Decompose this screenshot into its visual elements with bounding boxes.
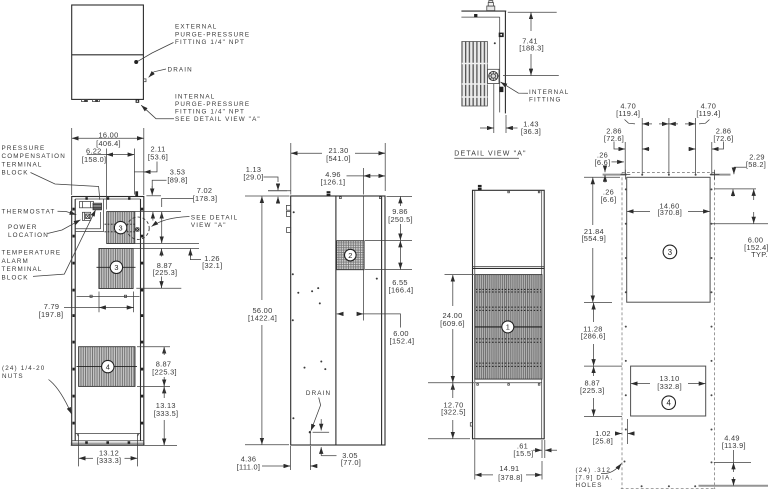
top view enclosure outline — [72, 5, 144, 99]
svg-text:(24) 1/4-20: (24) 1/4-20 — [2, 365, 45, 372]
circled 2 — [345, 249, 357, 261]
svg-text:TEMPERATURE: TEMPERATURE — [2, 250, 62, 257]
svg-text:[158.0]: [158.0] — [82, 155, 107, 164]
svg-text:(24) .312: (24) .312 — [576, 467, 612, 474]
dashed detail circle — [127, 217, 149, 239]
bottom base band — [71, 434, 145, 446]
dim 3.53 [89.8] — [146, 168, 187, 221]
dim 1.02 [25.8] — [593, 419, 635, 445]
upper grille (3) — [105, 212, 135, 244]
circled 4 — [102, 360, 114, 372]
dim 21.84 [554.9] — [581, 177, 620, 302]
dim 13.13 [333.5] — [145, 387, 179, 446]
external purge-pressure fitting (dot) — [134, 60, 138, 64]
svg-text:[333.5]: [333.5] — [154, 409, 179, 418]
svg-text:PURGE-PRESSURE: PURGE-PRESSURE — [175, 101, 250, 108]
dim 2.86 [72.6] left — [604, 126, 650, 149]
drain leader — [311, 398, 321, 431]
drain stub on right edge — [143, 79, 146, 82]
svg-text:[178.3]: [178.3] — [193, 194, 218, 203]
dim 11.28 [286.6] — [581, 303, 622, 366]
dim 1.13 [29.0] — [243, 165, 287, 204]
rear view body — [473, 190, 545, 438]
svg-text:TYP.: TYP. — [751, 250, 768, 259]
solid flange top segments — [603, 174, 731, 176]
svg-text:BLOCK: BLOCK — [2, 169, 29, 176]
heater shelf line — [77, 295, 140, 297]
top edge nuts — [85, 197, 130, 200]
svg-text:[225.3]: [225.3] — [153, 268, 178, 277]
svg-text:[113.9]: [113.9] — [722, 441, 746, 450]
rivet dots in side view — [292, 211, 378, 419]
svg-text:COMPENSATION: COMPENSATION — [2, 153, 66, 160]
label: external purge-pressure fitting — [175, 24, 250, 46]
svg-text:3: 3 — [114, 263, 118, 272]
svg-text:DRAIN: DRAIN — [168, 66, 193, 73]
svg-text:[7.9] DIA.: [7.9] DIA. — [576, 475, 614, 482]
svg-text:4: 4 — [666, 399, 671, 408]
svg-text:[322.5]: [322.5] — [441, 408, 466, 417]
label: (24) .312 [7.9] dia. holes — [576, 467, 614, 489]
corner cross marks — [621, 170, 720, 180]
svg-text:HOLES: HOLES — [576, 482, 603, 489]
dim 24.00 [609.6] — [440, 275, 474, 383]
left edge tabs — [286, 205, 290, 232]
label: internal fitting — [529, 89, 569, 104]
dim 7.79 [197.8] — [39, 292, 134, 319]
svg-text:[32.1]: [32.1] — [202, 261, 222, 270]
svg-text:[29.0]: [29.0] — [243, 172, 263, 181]
svg-text:3: 3 — [119, 223, 123, 232]
svg-text:[77.0]: [77.0] — [341, 458, 361, 467]
dim 4.96 [126.1] — [321, 168, 386, 195]
nut square on wall — [499, 33, 504, 38]
knurled fitting circle — [489, 71, 499, 80]
dim 6.22 [158.0] — [82, 147, 135, 210]
mounting holes bottom row — [641, 485, 697, 487]
circled 3 cutout — [663, 245, 677, 259]
dim 16.00 [406.4] — [72, 128, 144, 195]
thermostat — [82, 212, 90, 220]
hole row lines right — [712, 189, 768, 224]
svg-text:TERMINAL: TERMINAL — [2, 161, 43, 168]
circled 4 cutout — [662, 396, 676, 410]
left notch on rear view — [470, 423, 472, 426]
leader temperature alarm block — [33, 210, 96, 277]
dim 1.26 [32.1] — [190, 249, 222, 270]
cutout 4 rectangle — [631, 366, 706, 416]
base nuts — [85, 441, 130, 444]
dim 4.36 [111.0] — [237, 446, 317, 471]
svg-text:[197.8]: [197.8] — [39, 310, 64, 319]
right wall nuts — [141, 208, 143, 425]
svg-text:2: 2 — [348, 251, 352, 260]
bottom grille (4) — [77, 347, 138, 387]
svg-text:[286.6]: [286.6] — [581, 332, 606, 341]
svg-text:INTERNAL: INTERNAL — [175, 93, 215, 100]
circled 1 — [502, 321, 514, 333]
svg-text:[152.4]: [152.4] — [390, 336, 415, 345]
leader to drain — [149, 69, 166, 77]
dim 4.70 [119.4] right — [669, 101, 720, 124]
leader nuts — [49, 380, 72, 415]
svg-text:[89.8]: [89.8] — [167, 176, 187, 185]
title: detail view A — [454, 151, 526, 159]
svg-text:[72.6]: [72.6] — [713, 134, 733, 143]
leader internal fitting — [501, 82, 529, 93]
dim 2.86 [72.6] right — [689, 126, 734, 149]
dim 9.86 [250.5] — [365, 196, 413, 240]
dashed panel outline — [621, 172, 716, 489]
svg-text:[166.4]: [166.4] — [389, 285, 414, 294]
svg-text:[225.3]: [225.3] — [580, 386, 605, 395]
svg-text:FITTING 1/4" NPT: FITTING 1/4" NPT — [175, 39, 245, 46]
dim 8.87 [225.3] lower (grille 4 height) — [137, 347, 177, 387]
circled 3 lower — [110, 261, 122, 273]
svg-text:[119.4]: [119.4] — [616, 109, 640, 118]
condenser grille (2) crosshatch — [337, 241, 365, 270]
dim 2.11 [53.6] — [134, 144, 168, 172]
dim 56.00 [1422.4] — [245, 196, 290, 445]
svg-text:3: 3 — [668, 248, 673, 257]
svg-text:[119.4]: [119.4] — [696, 109, 720, 118]
leader power location — [48, 220, 81, 234]
dim .61 [15.5] — [513, 440, 557, 458]
svg-text:TERMINAL: TERMINAL — [2, 266, 43, 273]
leader thermostat — [58, 211, 77, 215]
svg-text:[188.3]: [188.3] — [519, 43, 544, 52]
dim 6.00 [152.4] TYP. — [744, 189, 768, 259]
leader pressure comp block — [31, 173, 100, 200]
svg-text:[1422.4]: [1422.4] — [248, 314, 277, 323]
dim 4.49 [113.9] — [699, 433, 768, 485]
svg-text:SEE DETAIL VIEW "A": SEE DETAIL VIEW "A" — [175, 116, 261, 123]
svg-text:14.91: 14.91 — [499, 464, 519, 473]
leader to internal fitting — [141, 105, 174, 119]
circled 3 upper — [114, 221, 126, 233]
svg-text:INTERNAL: INTERNAL — [529, 89, 569, 96]
svg-text:EXTERNAL: EXTERNAL — [175, 24, 217, 31]
side view body — [291, 196, 385, 445]
dim .26 [6.6] lower — [601, 166, 617, 204]
svg-text:[6.6]: [6.6] — [601, 195, 617, 204]
left wall nuts — [73, 208, 75, 425]
hex fitting on top (detail) — [487, 1, 495, 11]
grille frame bottom line — [475, 383, 542, 385]
svg-text:[25.8]: [25.8] — [593, 436, 613, 445]
cabinet outer frame — [72, 197, 144, 446]
fitting stub top of rear view — [477, 185, 482, 190]
dim 13.10 [332.8] — [631, 374, 706, 391]
feet tabs under bottom edge — [82, 99, 100, 101]
internal purge-pressure fitting below bottom edge — [136, 99, 140, 102]
label: power location — [8, 224, 49, 239]
svg-text:[111.0]: [111.0] — [237, 462, 261, 471]
nut below fitting — [499, 87, 503, 92]
mounting holes right column — [711, 188, 713, 463]
lower grille (3) — [97, 249, 136, 289]
svg-text:[225.3]: [225.3] — [152, 367, 177, 376]
dim 21.30 [541.0] — [291, 143, 385, 195]
svg-text:1: 1 — [506, 323, 510, 332]
fitting on side view top — [326, 191, 331, 196]
svg-text:FITTING 1/4" NPT: FITTING 1/4" NPT — [175, 109, 245, 116]
temperature alarm terminal block (striped) — [93, 203, 102, 210]
svg-text:[554.9]: [554.9] — [581, 234, 606, 243]
leader to external fitting — [138, 43, 174, 62]
dim 8.87 [225.3] upper — [153, 249, 178, 288]
svg-text:[6.6]: [6.6] — [595, 158, 611, 167]
drain fitting — [309, 431, 311, 445]
svg-text:[72.6]: [72.6] — [604, 134, 624, 143]
svg-text:NUTS: NUTS — [2, 373, 24, 380]
svg-text:[609.6]: [609.6] — [440, 319, 465, 328]
cutout 3 rectangle — [627, 177, 710, 302]
dim 6.55 [166.4] — [365, 241, 413, 295]
dim 8.87 [225.3] cutout — [580, 366, 622, 416]
dim 7.41 [188.3] — [503, 12, 559, 75]
rivet dot — [494, 42, 496, 44]
dim 14.60 [370.8] — [627, 201, 710, 217]
svg-text:4: 4 — [106, 362, 110, 371]
label: (24) 1/4-20 nuts — [2, 365, 45, 380]
dim 1.43 [36.3] — [480, 84, 541, 136]
mounting holes left column — [624, 188, 627, 462]
big louvered grille (1) — [475, 275, 542, 380]
dim 2.29 [58.2] — [733, 152, 766, 196]
svg-text:PURGE-PRESSURE: PURGE-PRESSURE — [175, 31, 250, 38]
svg-text:[58.2]: [58.2] — [746, 160, 766, 169]
internal fitting box (detail) — [488, 69, 500, 83]
pressure compensation terminal block — [80, 202, 94, 208]
svg-text:[36.3]: [36.3] — [521, 127, 541, 136]
svg-text:DRAIN: DRAIN — [306, 390, 331, 397]
dim 12.70 [322.5] — [428, 383, 474, 439]
svg-text:PRESSURE: PRESSURE — [2, 145, 46, 152]
label: see detail view A — [191, 214, 238, 229]
top edge ticks side view — [340, 197, 382, 199]
dim .26 [6.6] upper — [595, 150, 624, 167]
svg-text:VIEW "A": VIEW "A" — [191, 222, 227, 229]
svg-text:BLOCK: BLOCK — [2, 274, 29, 281]
hole column extension lines top — [625, 118, 712, 175]
dim 3.05 [77.0] — [313, 419, 362, 467]
louver grille (detail) — [462, 42, 488, 107]
ticks below top edge — [508, 191, 540, 193]
svg-text:[378.8]: [378.8] — [498, 473, 523, 482]
svg-text:DETAIL VIEW "A": DETAIL VIEW "A" — [454, 151, 526, 158]
svg-text:LOCATION: LOCATION — [8, 232, 49, 239]
top flange edge line — [268, 190, 291, 192]
svg-text:[370.8]: [370.8] — [657, 208, 682, 217]
extension lines grille edges right side — [133, 244, 199, 289]
svg-text:THERMOSTAT: THERMOSTAT — [2, 208, 56, 215]
dim 7.02 [178.3] — [135, 186, 218, 243]
svg-text:[126.1]: [126.1] — [321, 177, 346, 186]
detail corner structure — [461, 11, 506, 113]
top fitting stub on front view — [135, 191, 138, 196]
svg-text:FITTING: FITTING — [529, 97, 562, 104]
svg-text:16.00: 16.00 — [99, 130, 119, 139]
svg-text:[541.0]: [541.0] — [326, 154, 351, 163]
label: temperature alarm terminal block — [2, 250, 62, 282]
label: pressure compensation terminal block — [2, 145, 66, 176]
dim 13.12 [333.3] bottom — [77, 433, 140, 466]
dim 14.91 [378.8] — [475, 440, 542, 482]
svg-text:POWER: POWER — [8, 224, 38, 231]
svg-text:[53.6]: [53.6] — [148, 152, 168, 161]
internal fitting square on right wall — [135, 227, 139, 231]
svg-text:[15.5]: [15.5] — [513, 449, 533, 458]
svg-text:[333.3]: [333.3] — [97, 456, 122, 465]
svg-text:SEE DETAIL: SEE DETAIL — [191, 214, 238, 221]
dim 6.00 [152.4] between walls — [337, 314, 415, 345]
electrical compartment box — [75, 199, 103, 232]
nut square on ledge — [474, 14, 477, 17]
svg-text:[332.8]: [332.8] — [657, 382, 682, 391]
leader see detail — [152, 217, 190, 227]
label: internal purge-pressure fitting — [175, 93, 261, 123]
mounting holes top row — [641, 174, 696, 176]
svg-text:[250.5]: [250.5] — [388, 215, 413, 224]
dim 4.70 [119.4] left — [616, 101, 669, 124]
leader holes label — [601, 464, 622, 474]
svg-text:ALARM: ALARM — [2, 258, 29, 265]
